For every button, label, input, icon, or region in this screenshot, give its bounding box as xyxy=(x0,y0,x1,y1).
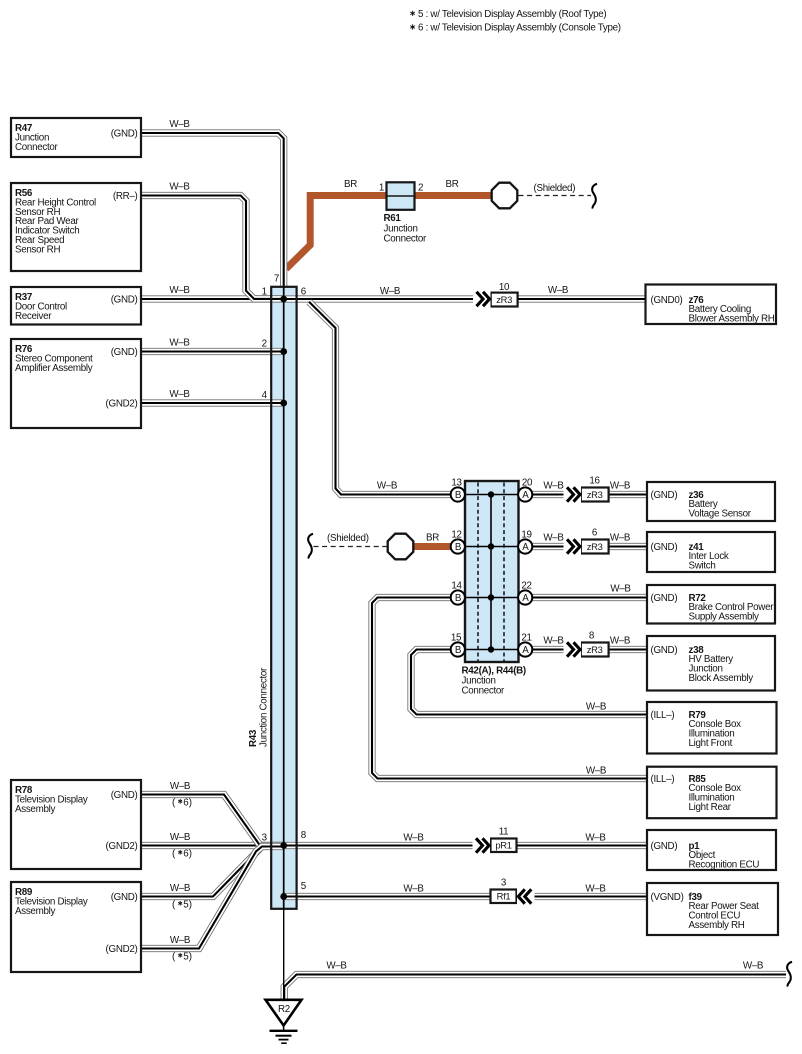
svg-text:Supply Assembly: Supply Assembly xyxy=(689,612,760,623)
shield octagon top xyxy=(492,183,518,209)
component box z76 xyxy=(646,285,777,325)
wire W-B R76 (GND) to pin 2 xyxy=(139,348,284,355)
wire BR from R61 to shield octagon xyxy=(415,192,493,199)
ground R2 symbol xyxy=(266,1000,302,1043)
wire W-B pin 5 row through Rf1(3) to f39 xyxy=(282,893,650,900)
R42 internal row line 14-22 xyxy=(466,597,518,599)
svg-text:A: A xyxy=(522,542,529,553)
svg-text:W–B: W–B xyxy=(170,781,191,792)
label R56 box text xyxy=(15,188,138,255)
svg-text:7: 7 xyxy=(274,274,279,285)
noise filter Rf1 (3) box xyxy=(491,890,517,904)
svg-text:R61: R61 xyxy=(384,213,402,224)
shield break squiggle top xyxy=(592,184,597,209)
component box R76 xyxy=(11,339,141,428)
svg-text:10: 10 xyxy=(499,282,510,293)
svg-text:A: A xyxy=(522,490,529,501)
svg-text:(GND): (GND) xyxy=(651,841,678,852)
component box R72 xyxy=(647,585,775,624)
svg-text:Blower Assembly RH: Blower Assembly RH xyxy=(689,314,775,325)
svg-text:W–B: W–B xyxy=(585,884,606,895)
svg-text:zR3: zR3 xyxy=(587,541,603,552)
svg-text:W–B: W–B xyxy=(169,285,190,296)
wire W-B bottom run to ground R2 xyxy=(284,975,786,1002)
component box z41 xyxy=(647,532,775,572)
svg-text:6: 6 xyxy=(592,528,598,539)
R42 bus junction dot row 12 xyxy=(488,543,494,549)
junction connector R43 body fill xyxy=(271,287,296,909)
pin A19 circle xyxy=(518,539,532,553)
svg-text:(GND): (GND) xyxy=(111,294,138,305)
pin A21 circle xyxy=(518,642,532,656)
svg-text:2: 2 xyxy=(262,339,267,350)
svg-text:5 : w/ Television Display Asse: 5 : w/ Television Display Assembly (Roof… xyxy=(418,9,606,20)
svg-text:11: 11 xyxy=(499,827,509,838)
wire W-B R89 (GND) merging at pin 3 xyxy=(139,846,284,897)
svg-text:W–B: W–B xyxy=(543,533,564,544)
label R37 box text xyxy=(15,292,138,322)
wire label asterisk6 R78 GND2 xyxy=(172,849,192,860)
svg-text:B: B xyxy=(455,542,462,553)
shield octagon left xyxy=(388,534,414,560)
wire label asterisk5 R89 GND xyxy=(172,900,192,911)
svg-text:Receiver: Receiver xyxy=(15,311,52,322)
svg-text:8: 8 xyxy=(589,631,595,642)
chevron arrows before zR3 (16) xyxy=(564,486,582,504)
R42 internal dashed line right xyxy=(503,483,505,662)
svg-text:W–B: W–B xyxy=(169,119,190,130)
svg-text:Switch: Switch xyxy=(689,561,716,572)
svg-text:Assembly RH: Assembly RH xyxy=(689,920,745,931)
svg-text:Amplifier Assembly: Amplifier Assembly xyxy=(15,363,93,374)
wire W-B branch from pin 6 wire down to pin B13 of R42 xyxy=(309,302,452,495)
component box R47 xyxy=(11,118,141,157)
svg-text:Junction Connector: Junction Connector xyxy=(259,667,270,747)
svg-text:W–B: W–B xyxy=(377,481,398,492)
svg-text:A: A xyxy=(522,593,529,604)
svg-text:B: B xyxy=(455,593,462,604)
svg-text:): ) xyxy=(189,952,192,963)
svg-text:W–B: W–B xyxy=(169,182,190,193)
wire W-B pin A21 to zR3(8) to z38 xyxy=(531,646,650,653)
noise filter zR3 (8) box xyxy=(581,643,609,657)
svg-text:(Shielded): (Shielded) xyxy=(327,533,369,544)
component box p1 xyxy=(647,830,776,870)
wire W-B R47 (GND) to pin 7 of R43 xyxy=(139,133,284,287)
svg-text:6: 6 xyxy=(301,286,307,297)
R42 internal row line 13-20 xyxy=(466,494,518,496)
svg-text:(GND): (GND) xyxy=(111,128,138,139)
wire W-B pin A22 to R72 xyxy=(531,594,650,601)
component box R85 xyxy=(647,767,777,819)
svg-text:W–B: W–B xyxy=(170,832,191,843)
pin B13 circle xyxy=(451,487,465,501)
svg-text:3: 3 xyxy=(501,878,507,889)
noise filter zR3 (16) box xyxy=(581,488,609,502)
svg-text:zR3: zR3 xyxy=(496,294,512,305)
svg-text:(GND): (GND) xyxy=(651,593,678,604)
svg-text:W–B: W–B xyxy=(326,961,347,972)
svg-text:W–B: W–B xyxy=(543,636,564,647)
svg-text:): ) xyxy=(189,849,192,860)
svg-text:B: B xyxy=(455,645,462,656)
component box f39 xyxy=(647,883,778,935)
svg-text:W–B: W–B xyxy=(380,286,401,297)
svg-text:W–B: W–B xyxy=(169,389,190,400)
R43 internal bus line xyxy=(283,287,285,909)
wire W-B pin B15 to R79 xyxy=(411,650,650,715)
svg-text:(GND): (GND) xyxy=(651,542,678,553)
svg-text:(Shielded): (Shielded) xyxy=(534,183,576,194)
svg-text:(GND2): (GND2) xyxy=(106,841,138,852)
label R85 box text xyxy=(651,774,742,813)
svg-text:Sensor RH: Sensor RH xyxy=(15,244,60,255)
svg-text:BR: BR xyxy=(426,533,439,544)
pin B12 circle xyxy=(451,539,465,553)
svg-text:3: 3 xyxy=(262,832,268,843)
junction connector R43 border xyxy=(271,287,296,909)
label z76 box text xyxy=(651,295,775,325)
svg-text:Connector: Connector xyxy=(384,234,428,245)
svg-text:(GND): (GND) xyxy=(651,490,678,501)
label f39 box text xyxy=(651,892,760,931)
svg-text:21: 21 xyxy=(521,633,531,644)
label z41 box text xyxy=(651,542,729,572)
wire label asterisk5 R89 GND2 xyxy=(172,952,192,963)
noise filter pR1 (11) box xyxy=(491,839,517,853)
svg-text:pR1: pR1 xyxy=(495,840,511,851)
component box R37 xyxy=(11,287,141,325)
R42 internal bus line xyxy=(490,495,492,650)
svg-text:8: 8 xyxy=(301,830,307,841)
svg-text:16: 16 xyxy=(589,476,600,487)
wire W-B R78 (GND) merging at pin 3 xyxy=(139,795,284,846)
R42 bus junction dot row 13 xyxy=(488,491,494,497)
wire W-B R89 (GND2) merging at pin 3 xyxy=(139,847,284,949)
R42 bus junction dot row 14 xyxy=(488,594,494,600)
label z38 box text xyxy=(651,645,754,684)
svg-text:(GND0): (GND0) xyxy=(651,295,683,306)
svg-text:W–B: W–B xyxy=(743,961,764,972)
wire W-B pin 3/8 row from R78 (GND2) through R43 to pR1(11) and p1 xyxy=(139,842,650,849)
svg-text:B: B xyxy=(455,490,462,501)
svg-text:1: 1 xyxy=(262,286,267,297)
label R47 box text xyxy=(15,123,138,153)
svg-text:Assembly: Assembly xyxy=(15,906,55,917)
pin A20 circle xyxy=(518,487,532,501)
wire W-B pin B14 to R85 xyxy=(372,598,650,779)
svg-text:zR3: zR3 xyxy=(587,644,603,655)
pin B14 circle xyxy=(451,590,465,604)
component box z36 xyxy=(647,482,775,521)
svg-text:BR: BR xyxy=(445,179,458,190)
svg-text:Connector: Connector xyxy=(15,142,59,153)
wire W-B R56 (RR-) merging at pin 1 xyxy=(139,196,283,299)
svg-text:20: 20 xyxy=(522,478,533,489)
R42 bus junction dot row 15 xyxy=(488,646,494,652)
svg-text:14: 14 xyxy=(451,581,462,592)
svg-text:R43: R43 xyxy=(248,729,259,747)
wire W-B R76 (GND2) to pin 4 xyxy=(139,399,284,406)
svg-text:(ILL–): (ILL–) xyxy=(651,774,675,785)
label R78 box text xyxy=(15,785,138,852)
svg-text:W–B: W–B xyxy=(586,702,607,713)
R42 internal row line 12-19 xyxy=(466,546,518,548)
svg-text:R2: R2 xyxy=(278,1004,290,1015)
label R76 box text xyxy=(15,344,138,409)
component box R78 xyxy=(11,780,141,869)
svg-text:W–B: W–B xyxy=(610,533,631,544)
svg-text:Block Assembly: Block Assembly xyxy=(689,673,754,684)
R42 internal dashed line left xyxy=(477,483,479,662)
svg-text:W–B: W–B xyxy=(403,833,424,844)
wire BR from R61 to node 7 of R43 xyxy=(286,196,387,269)
svg-text:): ) xyxy=(189,798,192,809)
junction connector R42(A),R44(B) border xyxy=(465,481,519,662)
shield dashed line top xyxy=(519,195,592,197)
note asterisk 5 roof type xyxy=(410,9,606,20)
svg-text:4: 4 xyxy=(262,390,268,401)
svg-text:(GND): (GND) xyxy=(651,645,678,656)
shield break squiggle left xyxy=(308,534,313,559)
svg-text:W–B: W–B xyxy=(585,833,606,844)
svg-text:Assembly: Assembly xyxy=(15,804,55,815)
svg-text:W–B: W–B xyxy=(610,636,631,647)
wire break squiggle bottom right xyxy=(787,962,792,987)
label R43 vertical xyxy=(248,667,270,747)
svg-text:Connector: Connector xyxy=(462,686,506,697)
svg-text:W–B: W–B xyxy=(403,884,424,895)
chevron arrows before zR3 (10) xyxy=(473,290,491,308)
svg-text:19: 19 xyxy=(521,530,531,541)
svg-text:(GND): (GND) xyxy=(111,892,138,903)
note asterisk 6 console type xyxy=(410,23,620,34)
svg-text:W–B: W–B xyxy=(548,285,569,296)
component box R79 xyxy=(647,702,777,754)
wire W-B pin A20 to zR3(16) to z36 xyxy=(531,491,650,498)
node pin 5 junction dot xyxy=(280,893,287,900)
svg-text:6 : w/ Television Display Asse: 6 : w/ Television Display Assembly (Cons… xyxy=(418,23,621,34)
label R42(A),R44(B) under box xyxy=(462,666,526,697)
wire W-B R37 (GND) through pin 1/6 of R43 to zR3(10) and z76 xyxy=(139,295,650,302)
svg-text:W–B: W–B xyxy=(610,584,631,595)
svg-text:W–B: W–B xyxy=(543,481,564,492)
wire BR from shield octagon to pin B12 xyxy=(400,543,452,550)
label R79 box text xyxy=(651,710,742,749)
junction connector R61 xyxy=(387,182,415,210)
svg-text:Rf1: Rf1 xyxy=(497,891,511,902)
svg-text:W–B: W–B xyxy=(170,883,191,894)
svg-text:(GND): (GND) xyxy=(111,790,138,801)
svg-text:W–B: W–B xyxy=(170,935,191,946)
svg-text:A: A xyxy=(522,645,529,656)
svg-text:W–B: W–B xyxy=(610,481,631,492)
svg-text:(GND2): (GND2) xyxy=(106,398,138,409)
noise filter zR3 (10) box xyxy=(491,293,518,307)
chevron arrows before zR3 (8) xyxy=(564,641,582,659)
node pin 1/6 junction dot xyxy=(280,296,287,303)
component box z38 xyxy=(647,636,775,691)
svg-text:(ILL–): (ILL–) xyxy=(651,710,675,721)
pin A22 circle xyxy=(518,590,532,604)
svg-text:(RR–): (RR–) xyxy=(113,191,138,202)
component box R89 xyxy=(11,882,141,972)
svg-text:zR3: zR3 xyxy=(587,489,603,500)
svg-text:12: 12 xyxy=(451,530,461,541)
wire ground lead from R43 to R2 xyxy=(283,909,285,1000)
svg-text:W–B: W–B xyxy=(169,338,190,349)
label R72 box text xyxy=(651,593,775,623)
node pin 4 junction dot xyxy=(280,400,287,407)
svg-text:): ) xyxy=(189,900,192,911)
node pin 2 junction dot xyxy=(280,348,287,355)
svg-text:Recognition ECU: Recognition ECU xyxy=(689,860,760,871)
label R61 under box xyxy=(384,213,428,245)
svg-text:Light Front: Light Front xyxy=(689,738,733,749)
svg-text:15: 15 xyxy=(451,633,462,644)
chevron arrows before zR3 (6) xyxy=(564,538,582,556)
svg-text:BR: BR xyxy=(344,179,357,190)
R42 internal row line 15-21 xyxy=(466,649,518,651)
svg-text:2: 2 xyxy=(418,183,423,194)
wire label asterisk6 R78 GND xyxy=(172,798,192,809)
svg-text:(GND2): (GND2) xyxy=(106,944,138,955)
node pin 3/8 junction dot xyxy=(280,842,287,849)
component box R56 xyxy=(11,183,141,271)
svg-text:1: 1 xyxy=(379,183,384,194)
svg-text:5: 5 xyxy=(301,881,307,892)
svg-text:13: 13 xyxy=(451,478,462,489)
svg-text:(GND): (GND) xyxy=(111,347,138,358)
shield dashed line left xyxy=(314,546,387,548)
chevron arrows after Rf1 (3), pointing left xyxy=(517,888,535,906)
junction connector R42(A),R44(B) body fill xyxy=(465,481,519,662)
svg-text:W–B: W–B xyxy=(586,766,607,777)
label p1 box text xyxy=(651,841,760,871)
chevron arrows before pR1 (11) xyxy=(473,837,491,855)
svg-text:(VGND): (VGND) xyxy=(651,892,684,903)
svg-text:Light Rear: Light Rear xyxy=(689,802,732,813)
label R89 box text xyxy=(15,887,138,955)
label z36 box text xyxy=(651,490,752,520)
svg-text:22: 22 xyxy=(521,581,531,592)
pin B15 circle xyxy=(451,642,465,656)
wire W-B pin A19 to zR3(6) to z41 xyxy=(531,543,650,550)
noise filter zR3 (6) box xyxy=(581,540,609,554)
svg-text:Voltage Sensor: Voltage Sensor xyxy=(689,509,752,520)
